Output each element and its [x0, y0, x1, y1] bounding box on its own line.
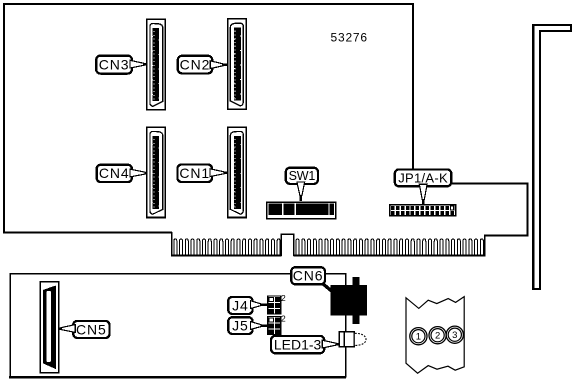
- label CN2: [178, 56, 228, 74]
- card edge connector fingers: [171, 232, 173, 257]
- label CN4: [97, 165, 147, 182]
- svg-text:CN5: CN5: [76, 321, 107, 337]
- LED hole 1: [410, 328, 427, 345]
- main board outline: [4, 4, 413, 233]
- board lower-right outline to bracket: [451, 183, 528, 235]
- svg-text:LED1-3: LED1-3: [274, 336, 322, 352]
- svg-text:CN6: CN6: [293, 268, 324, 284]
- bracket cutout piece: [406, 297, 464, 374]
- svg-text:J5: J5: [232, 317, 249, 333]
- label CN3: [96, 56, 147, 74]
- svg-text:SW1: SW1: [289, 169, 316, 183]
- jumper block JP1: [390, 205, 456, 216]
- svg-text:3: 3: [452, 330, 457, 341]
- mounting bracket: [532, 24, 572, 290]
- label J5: [228, 317, 267, 334]
- jumper block J5: [268, 314, 286, 335]
- label J4: [228, 297, 267, 314]
- svg-text:1: 1: [416, 332, 421, 343]
- connector CN2: [228, 19, 247, 109]
- daughter board outline: [10, 274, 346, 377]
- label CN6: [291, 267, 331, 291]
- label JP1/A-K: [395, 169, 452, 204]
- svg-text:CN3: CN3: [99, 56, 130, 72]
- svg-text:53276: 53276: [331, 31, 368, 45]
- svg-text:CN1: CN1: [179, 165, 210, 181]
- svg-text:2: 2: [281, 293, 286, 303]
- LED symbol LED1-3: [339, 332, 366, 347]
- connector CN6: [330, 277, 367, 324]
- label CN5: [59, 321, 110, 338]
- connector CN4: [147, 127, 166, 217]
- svg-text:J4: J4: [232, 297, 249, 313]
- connector CN5: [40, 282, 58, 373]
- connector CN3: [147, 19, 166, 109]
- edge key notch: [281, 234, 294, 256]
- LED hole 3: [446, 326, 463, 343]
- svg-text:CN4: CN4: [99, 165, 130, 181]
- DIP switch SW1: [267, 202, 336, 219]
- connector CN1: [228, 127, 247, 217]
- label CN1: [177, 165, 227, 183]
- svg-text:CN2: CN2: [180, 56, 211, 72]
- svg-text:2: 2: [435, 331, 440, 342]
- label SW1: [286, 168, 318, 202]
- LED hole 2: [429, 327, 446, 344]
- jumper block J4: [268, 293, 286, 314]
- label LED1-3: [271, 336, 340, 353]
- svg-text:2: 2: [281, 314, 286, 324]
- svg-text:JP1/A-K: JP1/A-K: [398, 170, 448, 185]
